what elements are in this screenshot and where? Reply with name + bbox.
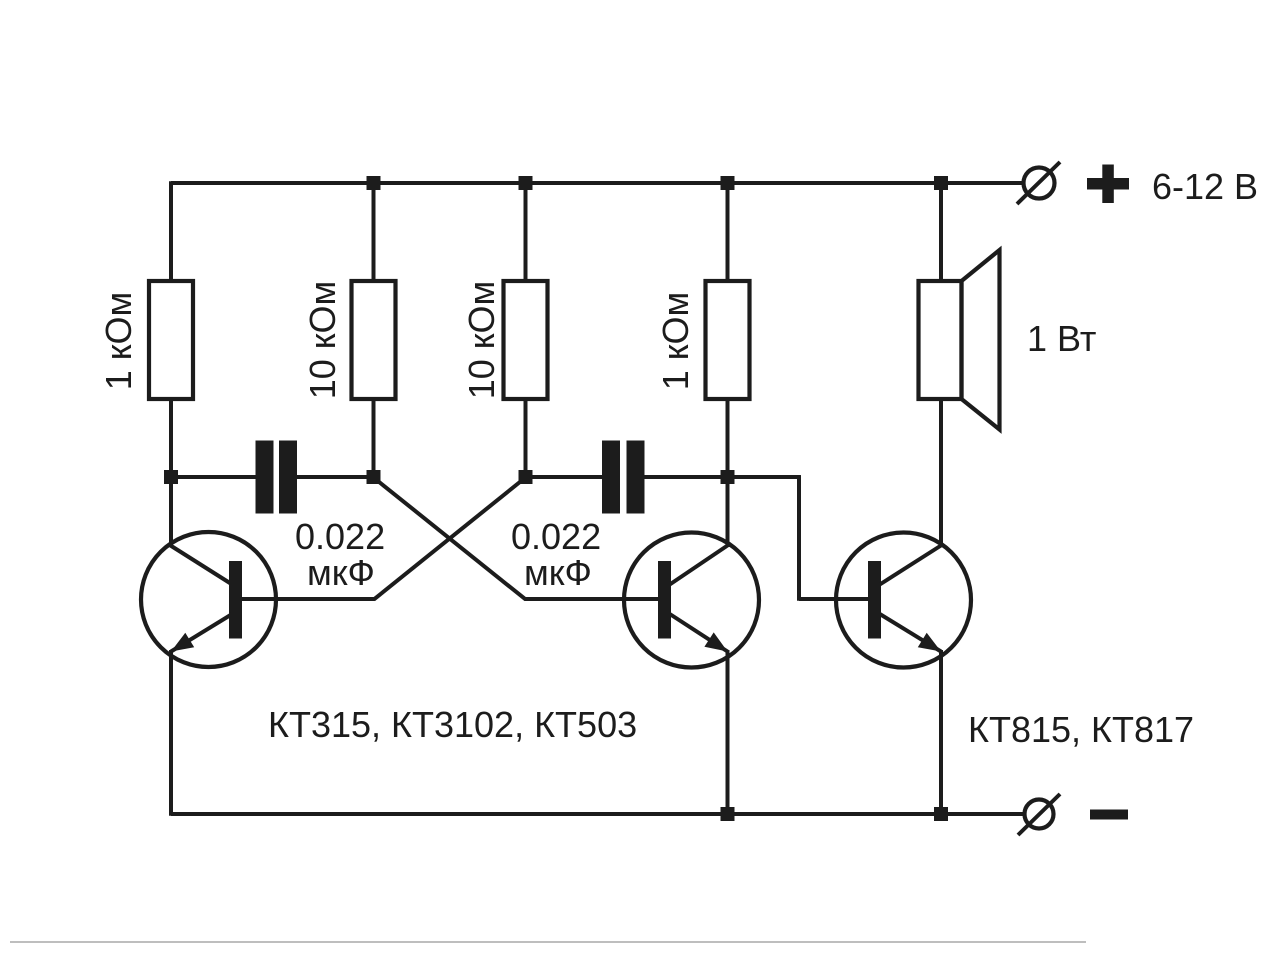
node A (Q1 collector / C1) (164, 470, 178, 484)
wire left branch vertical (top rail to R1) (169, 181, 173, 282)
svg-text:6-12 В: 6-12 В (1152, 166, 1258, 207)
node at R2 top (367, 176, 381, 190)
resistor R1 1 кОм (149, 281, 193, 399)
wire Q3 emitter to bottom rail (939, 650, 943, 815)
terminal minus (circle with slash) (1018, 794, 1060, 835)
wire Q2 emitter to bottom rail (726, 650, 730, 815)
transistor types label КТ815, КТ817 (968, 709, 1194, 750)
value label 0.022 (C2) (511, 516, 601, 557)
wire Q3 base horizontal (799, 597, 869, 601)
wire node A to C1 left plate (171, 475, 258, 479)
wire R2 bottom to node (372, 398, 376, 478)
node at R3 top (519, 176, 533, 190)
plus symbol (1087, 165, 1129, 204)
transistor types label КТ315, КТ3102, КТ503 (268, 704, 637, 745)
speaker LS1 (919, 250, 1000, 430)
value label 10 кОм (R2) (302, 281, 343, 400)
node Q2 emitter at ground rail (721, 807, 735, 821)
node at R4 top (721, 176, 735, 190)
resistor R4 1 кОм (706, 281, 750, 399)
wire cross-coupling diagonal from node C to Q1 base (374, 478, 526, 600)
supply voltage label 6-12 В (1152, 166, 1258, 207)
wire Q3 base vertical drop (797, 475, 801, 601)
svg-text:0.022: 0.022 (295, 516, 385, 557)
svg-text:КТ315, КТ3102, КТ503: КТ315, КТ3102, КТ503 (268, 704, 637, 745)
node at speaker top (934, 176, 948, 190)
node C (R3 bottom / C2 / Q1 base) (519, 470, 533, 484)
wire R3 bottom to node (524, 398, 528, 478)
value label 10 кОм (R3) (461, 281, 502, 400)
svg-text:1 кОм: 1 кОм (655, 292, 696, 391)
value label 1 Вт (1027, 318, 1096, 359)
terminal plus (circle with slash) (1017, 162, 1060, 204)
value label мкФ (C2) (524, 552, 592, 593)
wire speaker bottom to Q3 collector (939, 398, 943, 547)
svg-text:0.022: 0.022 (511, 516, 601, 557)
transistor Q1 (141, 532, 276, 667)
wire node C to C2 left plate (526, 475, 605, 479)
svg-text:1 кОм: 1 кОм (98, 292, 139, 391)
capacitor C1 0.022 мкФ (256, 441, 298, 514)
faint separator line near bottom (10, 941, 1086, 943)
minus symbol (1090, 810, 1128, 820)
wire top rail to R4 (726, 183, 730, 282)
transistor Q3 (836, 533, 971, 668)
node B (R2 bottom / C1 / Q2 base) (367, 470, 381, 484)
wire top supply rail (171, 181, 1024, 185)
svg-text:1 Вт: 1 Вт (1027, 318, 1096, 359)
value label 1 кОм (R4) (655, 292, 696, 391)
svg-text:10 кОм: 10 кОм (461, 281, 502, 400)
wire Q1 emitter to bottom rail (169, 650, 173, 816)
capacitor C2 0.022 мкФ (602, 441, 645, 514)
wire top rail to speaker (939, 183, 943, 282)
wire R1 bottom to Q1 collector (169, 398, 173, 547)
resistor R3 10 кОм (504, 281, 548, 399)
wire C1 right plate to node B (297, 475, 375, 479)
svg-text:мкФ: мкФ (307, 552, 375, 593)
wire cross-coupling diagonal from node B to Q2 base (374, 478, 526, 600)
wire R4 bottom to Q2 collector (726, 398, 730, 547)
transistor Q2 (624, 533, 759, 668)
wire Q1 base horizontal (241, 597, 375, 601)
wire top rail to R2 (372, 183, 376, 282)
svg-text:КТ815, КТ817: КТ815, КТ817 (968, 709, 1194, 750)
svg-text:мкФ: мкФ (524, 552, 592, 593)
wire bottom ground rail (171, 812, 1024, 816)
value label 1 кОм (R1) (98, 292, 139, 391)
resistor R2 10 кОм (352, 281, 396, 399)
value label мкФ (C1) (307, 552, 375, 593)
node Q3 emitter at ground rail (934, 807, 948, 821)
value label 0.022 (C1) (295, 516, 385, 557)
wire top rail to R3 (524, 183, 528, 282)
node D (R4 bottom / C2 / Q3 base) (721, 470, 735, 484)
wire Q2 base horizontal (525, 597, 660, 601)
svg-text:10 кОм: 10 кОм (302, 281, 343, 400)
wire C2 right plate to node D and Q3 base branch (643, 475, 801, 479)
